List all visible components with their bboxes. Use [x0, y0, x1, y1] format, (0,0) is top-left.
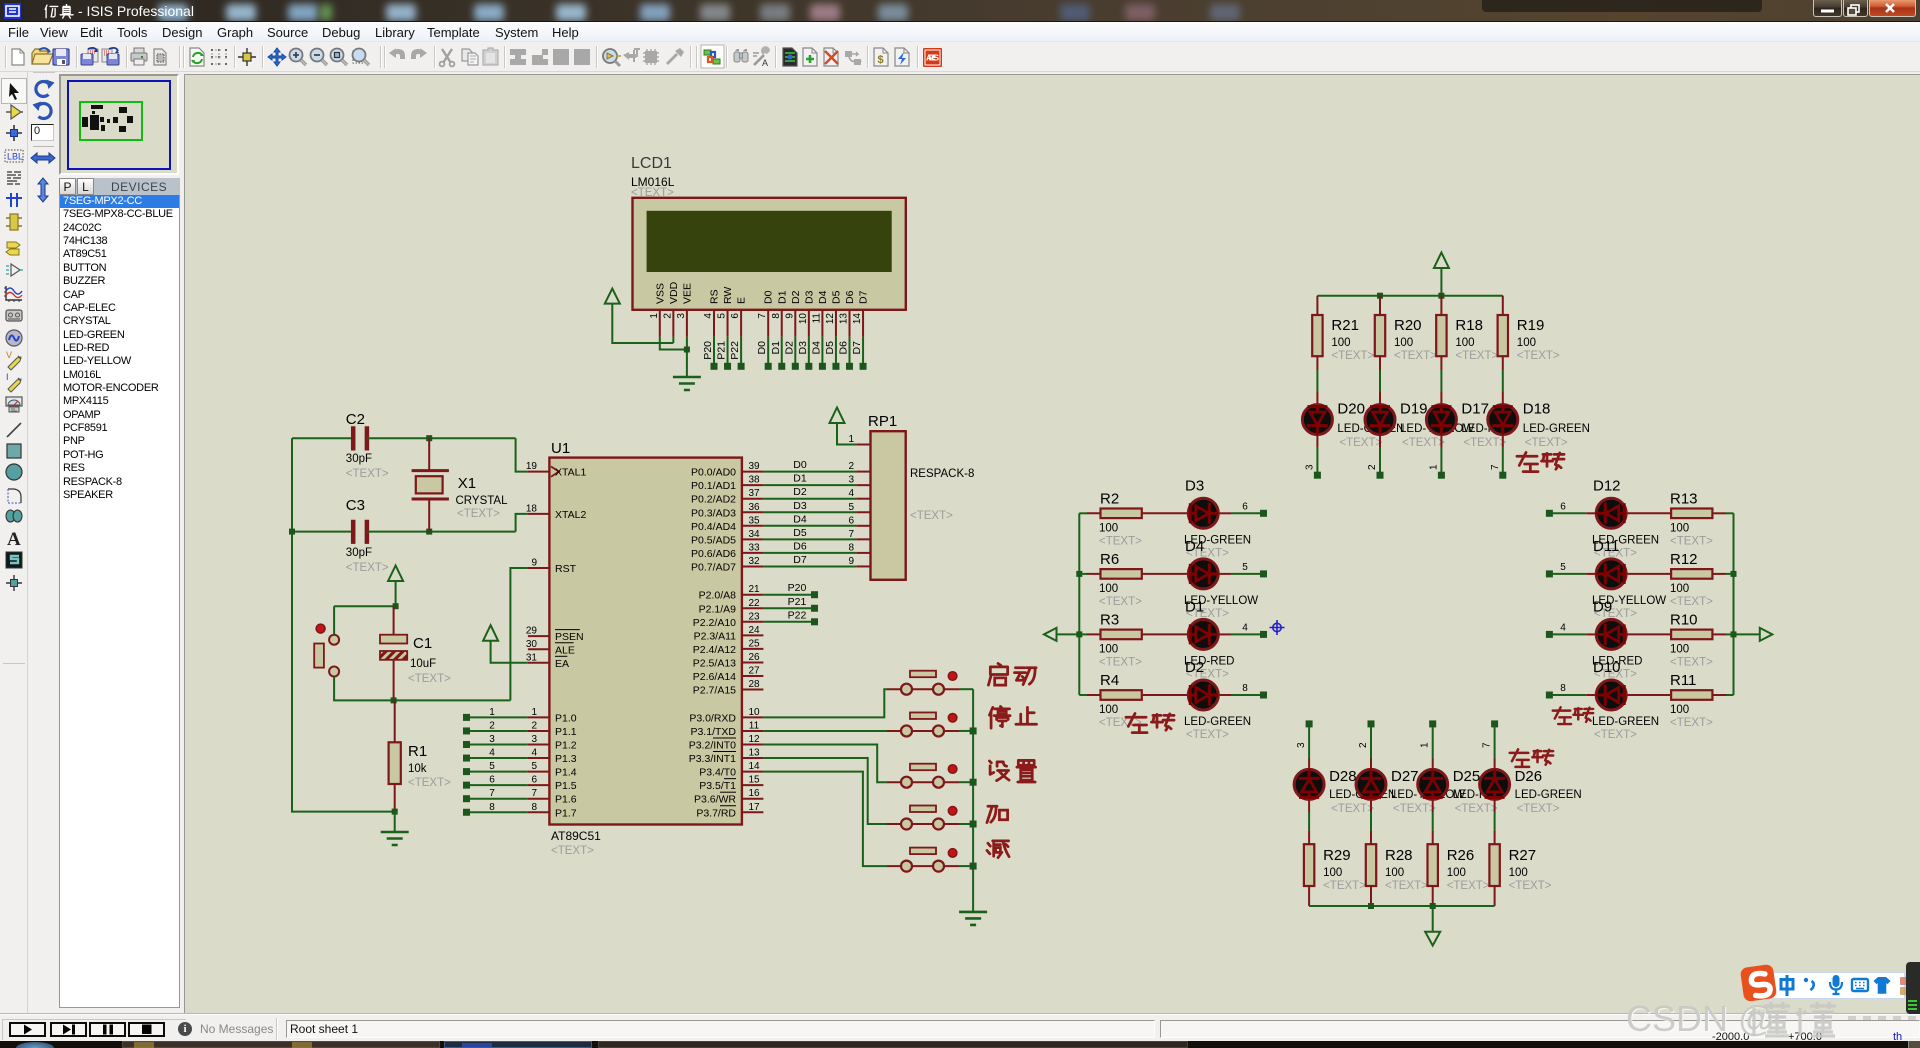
window buttons	[1813, 0, 1916, 18]
reset button	[316, 624, 325, 633]
resistor R13	[1627, 512, 1671, 514]
resistor R28	[1370, 800, 1372, 812]
simulation play button	[9, 1022, 46, 1037]
wire LED D1 to terminal	[1218, 633, 1231, 635]
resistor R26	[1432, 800, 1434, 812]
wire terminal to LED D10	[1552, 694, 1586, 696]
wire button 2 to U1	[763, 730, 887, 732]
junction bus	[970, 821, 977, 828]
power symbol reset	[388, 566, 403, 582]
resistor R29	[1308, 800, 1310, 812]
junction right rail 2	[1731, 631, 1737, 637]
wire terminal to LED D11	[1552, 573, 1586, 575]
terminal pin 4	[1546, 631, 1553, 638]
rotate / mirror controls	[28, 72, 59, 202]
LED D27 LED-YELLOW	[1370, 727, 1372, 759]
LED D3 LED-GREEN	[1188, 498, 1218, 528]
power symbol EA	[483, 625, 498, 641]
status bar	[0, 1014, 1920, 1041]
wire terminal to LED D9	[1552, 633, 1586, 635]
wire LED D3 to terminal	[1218, 512, 1231, 514]
simulation step button	[50, 1022, 87, 1037]
recording widget right edge	[1906, 962, 1920, 1014]
devices header	[59, 178, 180, 195]
simulation stop button	[128, 1022, 165, 1037]
wire LED D17 to terminal	[1440, 436, 1442, 447]
LED D11 LED-YELLOW	[1586, 573, 1595, 575]
crystal X1	[428, 438, 430, 531]
LED D26 LED-GREEN	[1494, 727, 1496, 759]
LED D25 LED-RED	[1432, 727, 1434, 759]
wire button 4 to bus	[959, 823, 973, 825]
wire terminal to LED D12	[1552, 512, 1586, 514]
resistor R27	[1494, 800, 1496, 812]
junction R1 bottom	[392, 809, 398, 815]
U1 clock input marker	[551, 467, 559, 477]
push button SW4	[887, 806, 959, 830]
LED D9 LED-RED	[1586, 633, 1595, 635]
power down arrow bottom cluster	[1425, 906, 1440, 946]
junction C3/X1	[426, 529, 432, 535]
wire middle cluster left rail	[1078, 513, 1080, 695]
label 左转 right cluster	[1553, 707, 1571, 724]
resistor pack RP1 body	[871, 431, 906, 580]
wire button top	[333, 606, 335, 635]
wire button 5 to U1	[763, 772, 887, 867]
resistor R4	[1079, 694, 1087, 696]
junction bus	[970, 779, 977, 786]
junction rail	[1076, 571, 1082, 577]
label 停止	[989, 706, 1010, 728]
LED D1 LED-RED	[1188, 619, 1218, 649]
mcu U1 AT89C51 body	[549, 458, 742, 825]
LED D17 LED-RED	[1440, 370, 1442, 392]
resistor R21	[1316, 296, 1318, 315]
label 左转 middle cluster	[1126, 713, 1147, 732]
junction bottom bus	[1368, 903, 1374, 909]
wire reset node	[334, 581, 396, 606]
junction top bus 2	[1438, 293, 1444, 299]
wire RP1 pin1	[837, 423, 856, 445]
ground below R1	[394, 812, 396, 832]
terminal pin 2 bottom	[1368, 720, 1375, 727]
arrow left middle cluster	[1044, 628, 1079, 641]
resistor R10	[1627, 633, 1671, 635]
ground below LCD	[673, 377, 701, 390]
P2.0-P2.2 wires with terminals	[763, 594, 813, 596]
junction C1 bottom	[391, 697, 397, 703]
terminal pin 6	[1546, 510, 1553, 517]
LCD data/control wires with terminals	[713, 337, 715, 365]
junction bus	[970, 727, 977, 734]
LED D28 LED-GREEN	[1308, 727, 1310, 759]
push button SW2	[887, 712, 959, 736]
terminal pin 3 bottom	[1306, 720, 1313, 727]
LED D4 LED-YELLOW	[1188, 559, 1218, 589]
wire button 2 to bus	[959, 730, 973, 732]
label 设置	[989, 761, 1009, 781]
push button SW1	[887, 671, 959, 695]
resistor R3	[1079, 633, 1087, 635]
app icon	[4, 3, 21, 19]
junction rail 2	[1076, 631, 1082, 637]
U1 left pin stubs and labels	[528, 471, 550, 473]
label 加	[987, 806, 1008, 822]
U1 P1 port terminal wires	[469, 716, 528, 718]
LED D19 LED-YELLOW	[1379, 370, 1381, 392]
power symbol top cluster	[1434, 253, 1449, 296]
resistor R18	[1440, 296, 1442, 315]
svg-text:V: V	[6, 350, 12, 360]
resistor R19	[1502, 296, 1504, 315]
main toolbar	[0, 42, 1920, 72]
svg-text:A: A	[7, 529, 21, 550]
wire RST	[510, 568, 528, 700]
wire LED D4 to terminal	[1218, 573, 1231, 575]
message icon	[178, 1022, 192, 1036]
push button SW3	[887, 764, 959, 788]
resistor R20	[1379, 296, 1381, 315]
buttons common bus wire	[972, 689, 974, 912]
svg-text:ARES: ARES	[926, 53, 939, 63]
wire bottom bus	[1309, 905, 1495, 907]
svg-text:LBL: LBL	[7, 152, 23, 162]
resistor R1	[394, 700, 396, 811]
junction C2/X1	[426, 435, 432, 441]
terminal pin 8	[1546, 692, 1553, 699]
label 减	[987, 841, 1009, 858]
label 启动	[988, 663, 1007, 685]
LED D18 LED-GREEN	[1502, 370, 1504, 392]
wire LED D2 to terminal	[1218, 694, 1231, 696]
data bus wires D0-D7 between U1 and RP1	[763, 471, 856, 473]
wire button 1 to U1	[763, 689, 887, 717]
LED D2 LED-GREEN	[1188, 680, 1218, 710]
resistor R2	[1079, 512, 1087, 514]
CSDN watermark	[1626, 998, 1920, 1038]
wire button 1 to bus	[959, 688, 973, 690]
arrow right cluster	[1734, 628, 1773, 641]
capacitor C1 electrolytic	[393, 606, 395, 700]
junction top bus	[1377, 293, 1383, 299]
LED D12 LED-GREEN	[1586, 512, 1595, 514]
wire button bottom	[334, 677, 510, 701]
push button SW5	[887, 848, 959, 872]
label 左转 bottom cluster	[1510, 749, 1529, 767]
U1 right pin stubs and labels	[742, 471, 764, 473]
wire top bus	[1317, 295, 1502, 297]
LED D20 LED-GREEN	[1316, 370, 1318, 392]
junction bus	[970, 863, 977, 870]
wire VSS pin1 to VEE node	[660, 337, 687, 350]
LCD pin stubs 1-14	[659, 310, 661, 337]
wire left rail	[292, 438, 395, 811]
wire VEE pin3 down	[686, 337, 688, 377]
windows taskbar sliver	[0, 1041, 1920, 1048]
resistor R11	[1627, 694, 1671, 696]
svg-text:I: I	[6, 372, 9, 382]
wire LED D20 to terminal	[1316, 436, 1318, 447]
wire button 4 to U1	[763, 758, 887, 824]
window title bar	[0, 0, 1920, 22]
ground buttons	[959, 912, 987, 925]
RP1 pin stubs 1-9	[856, 444, 870, 446]
menu bar	[0, 22, 1920, 42]
resistor R12	[1627, 573, 1671, 575]
wire EA	[491, 641, 528, 663]
junction reset top	[393, 603, 399, 609]
wire LED D19 to terminal	[1379, 436, 1381, 447]
overview window	[59, 74, 179, 175]
devices list	[59, 195, 180, 1008]
sogou input method panel	[1763, 972, 1905, 999]
wire button 5 to bus	[959, 865, 973, 867]
svg-text:A: A	[762, 58, 768, 68]
LCD LCD1 LM016L body	[633, 198, 906, 310]
junction right rail	[1731, 571, 1737, 577]
terminal pin 7 bottom	[1491, 720, 1498, 727]
junction C3 left rail	[289, 529, 295, 535]
wire XTAL1	[516, 438, 528, 471]
wire button 3 to bus	[959, 781, 973, 783]
wire button 3 to U1	[763, 745, 887, 783]
junction VSS/VEE	[684, 347, 690, 353]
terminal pin 5	[1546, 570, 1553, 577]
simulation pause button	[89, 1022, 126, 1037]
wire XTAL2	[516, 514, 528, 532]
wire power to VDD pin2	[612, 304, 673, 343]
wire LED D18 to terminal	[1502, 436, 1504, 447]
terminal pin 1 bottom	[1429, 720, 1436, 727]
label 左转 top cluster	[1517, 452, 1538, 471]
power symbol at LCD VDD	[605, 289, 620, 304]
title text 仿真 - ISIS Professional	[44, 4, 74, 19]
svg-text:$: $	[878, 54, 884, 66]
LED D10 LED-GREEN	[1586, 694, 1595, 696]
origin marker	[1270, 620, 1285, 635]
resistor R6	[1079, 573, 1087, 575]
wire right cluster rail	[1733, 513, 1735, 695]
power symbol RP1	[830, 408, 845, 424]
junction bottom bus 2	[1430, 903, 1436, 909]
left panel	[0, 72, 183, 1014]
